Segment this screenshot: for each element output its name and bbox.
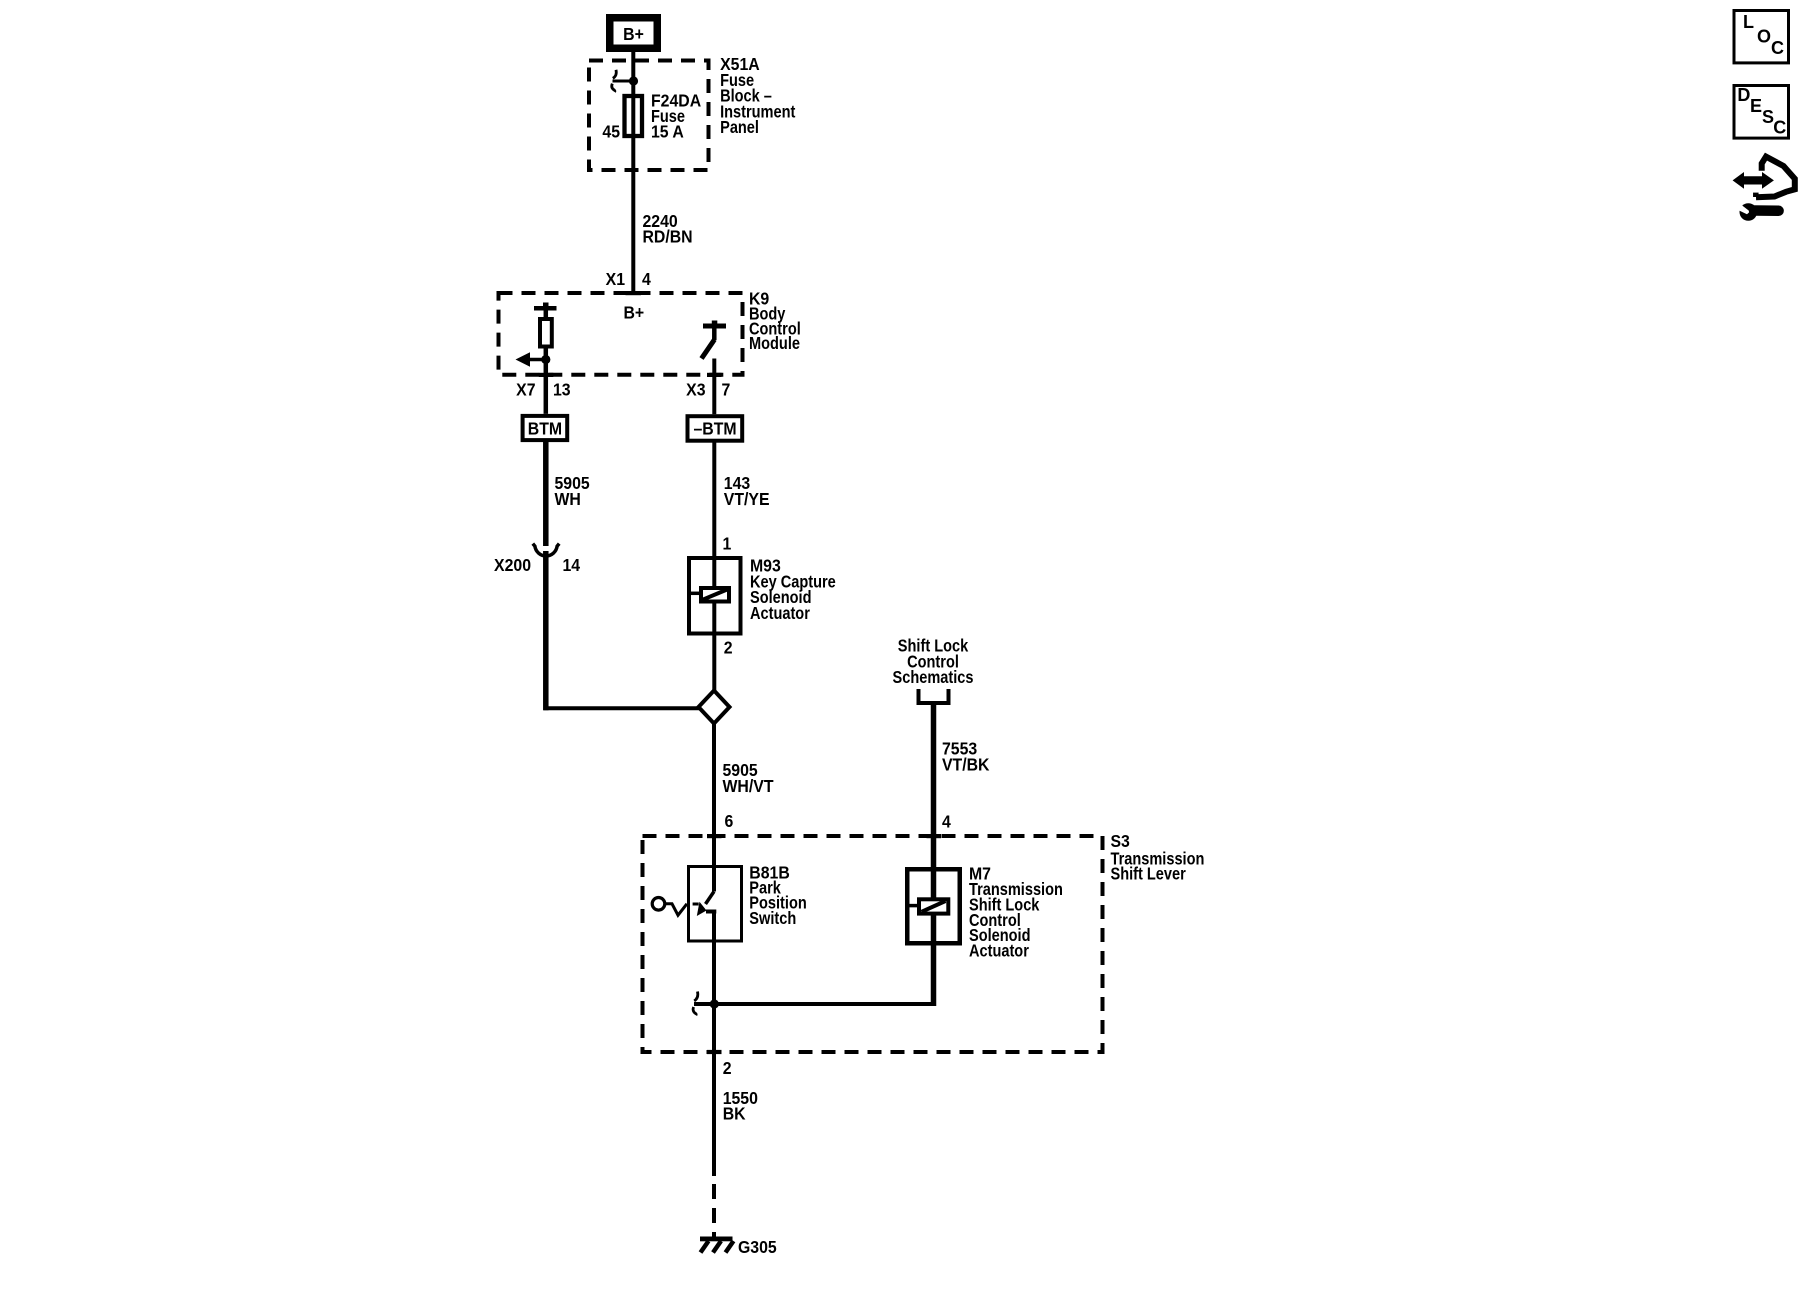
label K9 Body Control Module [749, 289, 801, 354]
wire label 5905 WH/VT [723, 760, 775, 796]
wire label 7553 VT/BK [942, 739, 990, 775]
connector label X1 pin 4 [606, 269, 652, 289]
svg-text:14: 14 [563, 555, 581, 575]
svg-text:4: 4 [642, 269, 651, 289]
svg-text:B+: B+ [623, 24, 644, 44]
internal arrow (output to other circuits) [516, 352, 546, 366]
svg-text:6: 6 [725, 811, 734, 831]
header diagnostic icon: double arrow, outline arrow, wrench [1733, 157, 1795, 221]
svg-text:C: C [1773, 118, 1786, 138]
wire label 143 VT/YE [724, 473, 770, 509]
header DESC box [1734, 85, 1789, 138]
junction dot on fuse feed [629, 76, 638, 85]
svg-text:X3: X3 [686, 380, 705, 400]
label B+ internal rail [624, 303, 645, 323]
off-page reference Shift Lock Control Schematics [893, 636, 974, 703]
svg-text:Shift Lever: Shift Lever [1111, 864, 1187, 884]
wire label 2240 RD/BN [643, 211, 693, 247]
transmission shift lever S3 dashed box [643, 836, 1103, 1052]
svg-text:45: 45 [602, 122, 620, 142]
wire from M7 down and left to junction [694, 944, 934, 1007]
node -BTM [688, 416, 743, 441]
wire circuit 143 from -BTM to M93 and splice [712, 441, 716, 692]
svg-text:VT/YE: VT/YE [724, 489, 770, 509]
fuse block X51A dashed box [589, 61, 709, 171]
wire: battery feed from B+ to BCM pin X1-4 [631, 50, 635, 293]
label M93 Key Capture Solenoid Actuator [750, 556, 836, 624]
splice diamond [699, 691, 730, 724]
key capture solenoid actuator M93 [689, 558, 741, 634]
svg-text:O: O [1757, 26, 1771, 46]
wire 5905 WH/VT splice to S3 [712, 722, 716, 867]
pin 1 of M93 [723, 534, 732, 554]
inline connector X200 pin 14 [494, 544, 581, 576]
wire label 5905 WH [555, 473, 590, 509]
svg-text:13: 13 [553, 380, 571, 400]
bus tap squiggle inside fuse block [612, 70, 634, 92]
pin 2 of S3 [723, 1058, 732, 1078]
pin tick at BCM X7-13 [539, 373, 554, 377]
label X51A Fuse Block - Instrument Panel [720, 54, 796, 138]
pin 6 of S3 [725, 811, 734, 831]
svg-text:C: C [1771, 38, 1784, 58]
wire from X200 down to corner then to splice [544, 551, 701, 710]
bus tap squiggle at S3 junction [693, 992, 698, 1016]
park position switch B81B [689, 867, 742, 1005]
svg-text:Schematics: Schematics [893, 668, 974, 688]
wire circuit 1550 BK to ground [712, 1004, 716, 1237]
node BTM [523, 416, 568, 440]
svg-text:15 A: 15 A [651, 122, 684, 142]
svg-text:Panel: Panel [720, 118, 759, 138]
svg-text:2: 2 [724, 638, 733, 658]
BCM internal switch right [702, 321, 727, 415]
battery positive symbol B+ [610, 18, 658, 49]
pin tick at BCM X3-7 [707, 373, 722, 377]
svg-text:–BTM: –BTM [693, 419, 736, 439]
body control module K9 dashed box [499, 293, 743, 375]
svg-text:1: 1 [723, 534, 732, 554]
svg-text:L: L [1743, 12, 1754, 32]
wire circuit 5905 WH from BTM to X200 [543, 440, 549, 546]
pin tick at S3 pin 2 [707, 1050, 722, 1054]
svg-text:WH: WH [555, 489, 581, 509]
label B81B Park Position Switch [749, 863, 806, 929]
junction dot inside S3 [710, 999, 719, 1008]
svg-text:Actuator: Actuator [750, 604, 810, 624]
svg-text:BK: BK [723, 1104, 747, 1124]
svg-text:D: D [1737, 85, 1750, 105]
pin tick at S3 pin 4 [927, 834, 942, 838]
wire label 1550 BK [723, 1088, 758, 1124]
header LOC box [1734, 11, 1789, 63]
label S3 Transmission Shift Lever [1111, 831, 1205, 884]
svg-text:B+: B+ [624, 303, 645, 323]
svg-text:E: E [1750, 96, 1762, 116]
svg-text:Switch: Switch [749, 909, 796, 929]
svg-text:X1: X1 [606, 269, 625, 289]
svg-text:Actuator: Actuator [969, 941, 1029, 961]
fuse F24DA 15A symbol [625, 96, 643, 136]
label F24DA Fuse 15 A [651, 91, 701, 142]
wire circuit 7553 VT/BK [931, 703, 937, 869]
ground G305 [700, 1237, 777, 1258]
svg-text:Module: Module [749, 334, 800, 354]
svg-text:RD/BN: RD/BN [643, 227, 693, 247]
svg-text:4: 4 [942, 812, 951, 832]
svg-text:VT/BK: VT/BK [942, 755, 990, 775]
pin tick at BCM X1-4 [626, 291, 642, 295]
park switch mechanical linkage [652, 898, 699, 916]
svg-text:WH/VT: WH/VT [723, 776, 775, 796]
svg-text:X7: X7 [516, 380, 535, 400]
connector label X3 pin 7 [686, 380, 730, 400]
svg-text:BTM: BTM [528, 419, 562, 439]
svg-text:S: S [1762, 107, 1774, 127]
connector label X7 pin 13 [516, 380, 570, 400]
pin 2 of M93 [724, 638, 733, 658]
pin tick at S3 pin 6 [707, 834, 722, 838]
junction dot in BCM left branch [541, 355, 550, 364]
svg-text:G305: G305 [738, 1237, 777, 1257]
svg-text:7: 7 [722, 380, 731, 400]
svg-text:X200: X200 [494, 555, 531, 575]
pin 4 of S3 [942, 812, 951, 832]
BCM internal driver (coil) left [534, 303, 557, 414]
label M7 Transmission Shift Lock Control Solenoid Actuator [969, 864, 1063, 961]
transmission shift lock control solenoid actuator M7 [907, 869, 960, 944]
fuse position number 45 [602, 122, 620, 142]
svg-text:2: 2 [723, 1058, 732, 1078]
